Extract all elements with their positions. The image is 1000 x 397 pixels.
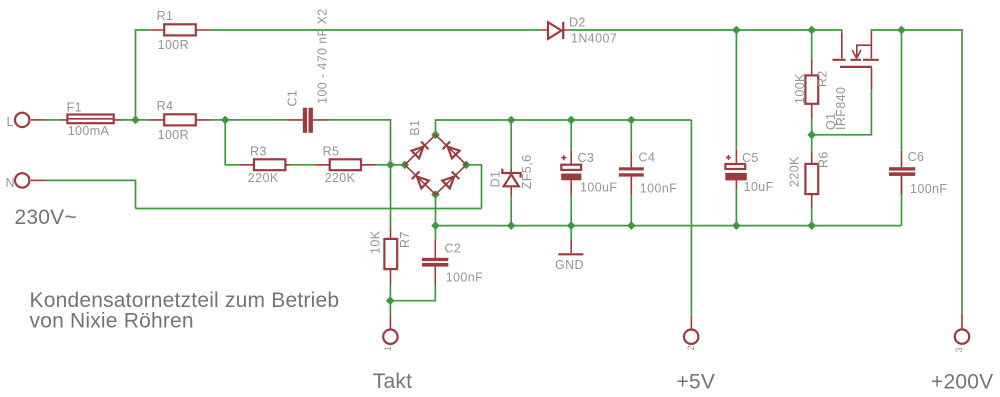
bridge diode top-left	[412, 141, 429, 158]
resistor R2	[805, 60, 818, 120]
junction C5 top on HV rail	[733, 27, 740, 34]
svg-text:D1: D1	[489, 171, 503, 188]
pin L	[15, 113, 45, 127]
wire R5 to node AC1	[376, 164, 391, 166]
junction bridge bottom vertex	[432, 191, 439, 198]
svg-text:220K: 220K	[325, 171, 356, 185]
svg-text:IRF840: IRF840	[834, 87, 848, 130]
wire GND rail to ground symbol	[570, 226, 572, 240]
junction bridge right vertex	[463, 161, 470, 168]
bridge rectifier B1	[405, 135, 467, 195]
junction C4 top	[628, 117, 635, 124]
svg-text:R4: R4	[157, 99, 174, 113]
wire Q1 source to +200V rail	[871, 30, 962, 313]
ground symbol	[558, 240, 583, 255]
wire L pin to F1	[45, 119, 61, 121]
svg-text:R7: R7	[398, 231, 412, 248]
junction R6 bottom	[808, 222, 815, 229]
resistor R3	[240, 159, 291, 170]
junction C6 top on +200V rail	[898, 27, 905, 34]
svg-text:C1: C1	[286, 90, 300, 107]
svg-text:C5: C5	[742, 151, 759, 165]
wire C2 to Takt node	[390, 285, 435, 301]
svg-text:C3: C3	[578, 151, 595, 165]
svg-text:230V~: 230V~	[15, 206, 77, 229]
wire D2 to Q1 drain (HV rail)	[571, 30, 842, 34]
wire R6 bottom to GND rail	[811, 208, 813, 226]
svg-text:+5V: +5V	[677, 370, 716, 393]
pin +5V	[684, 316, 698, 344]
wire C6 top from rail	[901, 30, 903, 151]
wire bridge top to +5V rail	[436, 120, 692, 135]
pin +200V	[955, 313, 969, 344]
wire GND rail	[436, 225, 902, 227]
wire C1 to node AC1	[328, 120, 391, 165]
svg-text:100nF: 100nF	[640, 182, 677, 196]
bridge diode top-right	[443, 141, 460, 158]
transistor Q1	[833, 32, 879, 91]
wire node AC1 to bridge left vertex	[390, 164, 404, 166]
junction C4 bottom	[628, 222, 635, 229]
svg-text:2: 2	[686, 345, 696, 350]
wire C5 column from HV rail	[735, 30, 737, 149]
wire bridge bottom to GND rail	[435, 195, 437, 226]
wire N bottom run to riser	[136, 208, 482, 210]
svg-text:Takt: Takt	[373, 370, 412, 393]
junction R2 top on HV rail	[808, 27, 815, 34]
svg-text:10K: 10K	[369, 230, 383, 254]
wire R4 to node A	[210, 119, 225, 121]
svg-text:R3: R3	[250, 145, 267, 159]
wire F1 to node L1	[123, 119, 136, 121]
svg-text:100R: 100R	[158, 38, 189, 52]
wire D1 top lead net	[510, 120, 512, 168]
junction C3 top	[568, 117, 575, 124]
wire node A down to R3	[225, 120, 239, 165]
wire N pin to corner	[46, 180, 136, 208]
svg-text:R2: R2	[816, 70, 830, 87]
wire node L1 to R4	[136, 119, 150, 121]
junction bridge left vertex	[401, 161, 408, 168]
svg-text:C6: C6	[908, 150, 925, 164]
capacitor C3	[561, 151, 581, 195]
svg-text:100 - 470 nF X2: 100 - 470 nF X2	[316, 8, 330, 104]
plus mark C5	[726, 155, 731, 160]
junction node L1	[132, 116, 139, 123]
svg-text:100uF: 100uF	[580, 181, 617, 195]
junction node AC1	[387, 161, 394, 168]
pin N	[15, 173, 46, 187]
svg-text:L: L	[7, 115, 14, 129]
junction node A	[222, 116, 229, 123]
wire node L1 up and to R1	[136, 30, 150, 120]
svg-text:GND: GND	[555, 258, 584, 272]
junction C5 bottom	[733, 222, 740, 229]
svg-text:C4: C4	[639, 150, 656, 164]
wire C3 bottom lead net	[570, 195, 572, 226]
fuse F1	[61, 115, 123, 124]
junction gate node	[808, 131, 815, 138]
bridge diode bottom-right	[442, 171, 459, 188]
wire gate node to Q1 gate	[812, 90, 872, 135]
svg-text:1N4007: 1N4007	[571, 31, 617, 45]
resistor R6	[805, 152, 818, 207]
svg-text:B1: B1	[408, 120, 422, 136]
wire C3 top lead net	[570, 120, 572, 151]
capacitor C4	[619, 151, 644, 195]
svg-text:100mA: 100mA	[68, 124, 110, 138]
wire riser up to bridge right vertex	[466, 165, 481, 209]
capacitor C2	[422, 240, 448, 285]
junction Takt node	[387, 297, 394, 304]
junction bridge top vertex	[432, 131, 439, 138]
svg-text:+200V: +200V	[931, 370, 993, 393]
wire +5V rail down to pin	[690, 120, 692, 316]
wire node A to C1	[225, 119, 288, 121]
svg-text:R1: R1	[157, 9, 174, 23]
wire C4 bottom lead net	[630, 195, 632, 226]
wire R3 to R5	[291, 164, 316, 166]
svg-text:3: 3	[954, 347, 964, 352]
svg-text:R6: R6	[817, 151, 831, 168]
svg-text:220K: 220K	[248, 171, 279, 185]
svg-text:100R: 100R	[158, 128, 189, 142]
junction GND rail at C2	[432, 222, 439, 229]
wire C6 bottom to GND rail end	[901, 176, 903, 226]
wire R2 bottom to gate node	[811, 119, 813, 135]
plus mark C3	[561, 155, 566, 160]
junction D1 top	[508, 117, 515, 124]
wire C5 bottom to GND rail	[735, 190, 737, 226]
wire C4 top lead net	[630, 120, 632, 151]
svg-text:100nF: 100nF	[910, 182, 947, 196]
svg-text:D2: D2	[569, 15, 586, 29]
capacitor C1	[288, 108, 328, 133]
junction C3 bottom / GND	[568, 222, 575, 229]
wire GND rail node down to C2	[435, 226, 437, 241]
wire R1 to D2	[211, 29, 541, 31]
wire D1 bottom lead net	[510, 196, 512, 226]
svg-text:F1: F1	[67, 101, 82, 115]
wire R2 top from HV rail	[811, 30, 813, 60]
svg-text:von Nixie Röhren: von Nixie Röhren	[30, 310, 194, 333]
diode D2	[541, 22, 571, 39]
resistor R5	[316, 159, 376, 170]
wire Takt node down to pin	[389, 301, 391, 316]
bridge diode bottom-left	[412, 171, 429, 188]
pin Takt	[383, 315, 397, 344]
svg-text:100K: 100K	[793, 73, 807, 104]
resistor R1	[149, 24, 211, 35]
svg-text:C2: C2	[445, 242, 462, 256]
svg-text:1: 1	[383, 346, 393, 351]
junction D1 bottom	[508, 222, 515, 229]
svg-text:N: N	[6, 176, 15, 190]
capacitor C6	[889, 151, 915, 195]
resistor R4	[149, 114, 210, 125]
svg-text:ZF5,6: ZF5,6	[520, 155, 534, 190]
wire R7 to Takt node	[389, 284, 391, 301]
capacitor C5	[725, 149, 747, 190]
resistor R7	[384, 227, 397, 284]
svg-text:220K: 220K	[788, 156, 802, 187]
wire node AC1 down to R7	[390, 165, 392, 228]
svg-text:10uF: 10uF	[744, 180, 774, 194]
svg-text:R5: R5	[323, 145, 340, 159]
zener diode D1	[502, 168, 520, 195]
svg-text:100nF: 100nF	[446, 270, 483, 284]
wire gate node down to R6	[811, 135, 813, 152]
